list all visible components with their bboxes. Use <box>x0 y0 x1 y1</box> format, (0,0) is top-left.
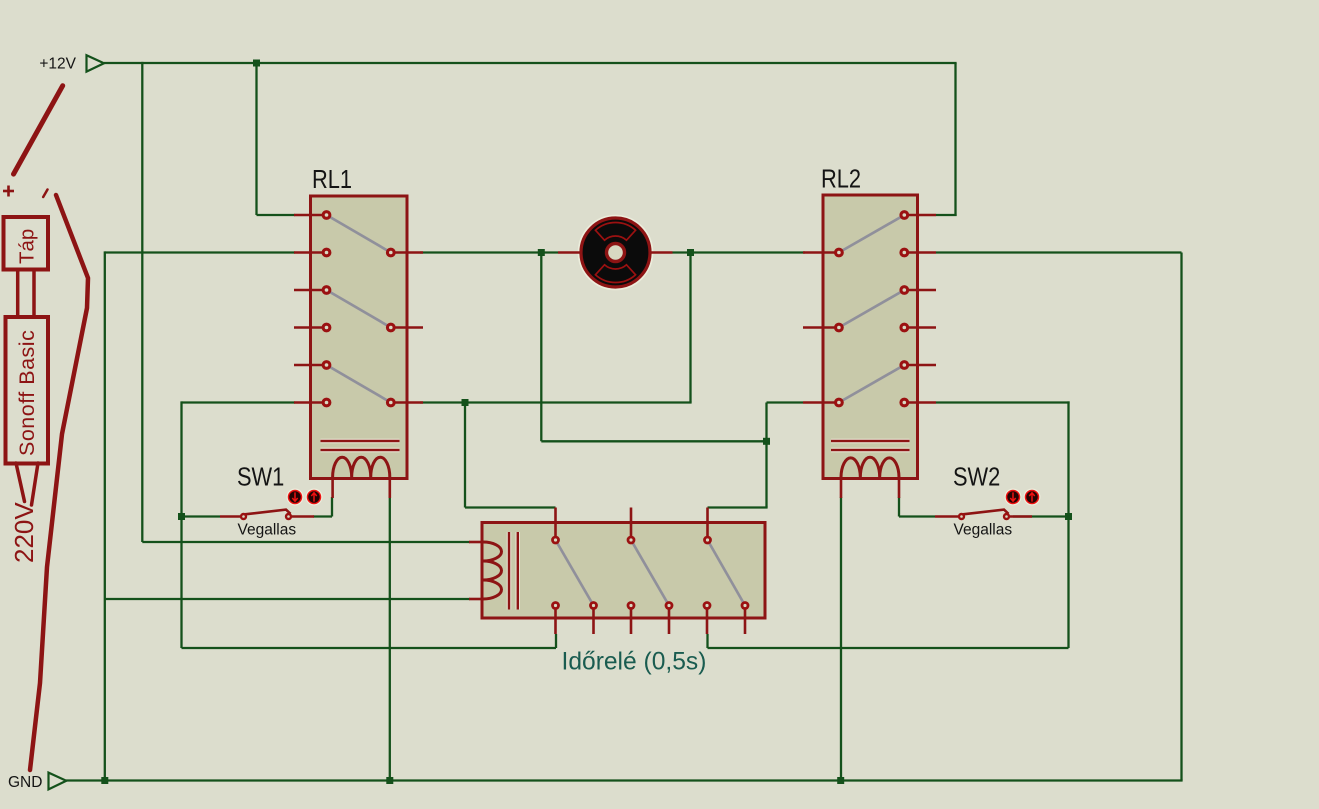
RL2 coil left leg <box>840 477 843 498</box>
RL1 contact blade 2 <box>327 290 391 328</box>
switch SW1 toggle buttons <box>287 489 303 505</box>
RL1 left pin 4 <box>322 323 332 333</box>
wire to SW1 left terminal <box>182 515 221 517</box>
annotation plus sign <box>3 190 14 193</box>
switch SW2 blade <box>963 510 1009 515</box>
wire to timer top pin 3 <box>708 506 768 508</box>
timer top pin 1 <box>551 536 560 545</box>
RL2 left pin 1 <box>834 248 844 258</box>
RL2 left pin 3 stub <box>803 401 839 404</box>
annotation wire negative 220V run <box>30 195 88 770</box>
wire left of RL1 pin6 row <box>182 401 296 403</box>
RL2 coil <box>841 457 899 477</box>
timer contact blade 1 <box>556 540 594 606</box>
svg-text:GND: GND <box>8 774 42 791</box>
junction GND rail mid <box>386 777 393 784</box>
wire SW2 right terminal to loop <box>1013 515 1070 517</box>
RL2 right pin 3 stub <box>904 289 936 292</box>
timer bottom pin 5 <box>703 601 712 610</box>
RL1 left pin 3 stub <box>294 289 327 292</box>
switch SW2 left terminal <box>958 513 965 520</box>
switch SW1 blade <box>245 510 291 515</box>
switch SW2 right terminal <box>1003 513 1010 520</box>
RL2 right pin 3 <box>899 285 909 295</box>
svg-text:220V: 220V <box>9 502 39 563</box>
junction RL1 pin9 row <box>462 399 469 406</box>
wire timer bottom pin 5 to right vertical <box>708 647 1069 649</box>
timer bottom pin 4 stub <box>668 606 671 635</box>
RL2 right pin 1 <box>899 210 909 220</box>
RL1 contact blade 3 <box>327 365 391 403</box>
wire +12V rail <box>104 62 957 64</box>
annotation wire positive <box>14 86 63 174</box>
motor shaft <box>607 244 625 262</box>
timer bottom pin 4 <box>665 601 674 610</box>
timer bottom pin 5 stub <box>706 606 709 635</box>
wire RL2 coil right leg down <box>898 497 900 517</box>
RL1 left pin 5 stub <box>294 364 327 367</box>
motor right terminal stub <box>650 251 673 254</box>
RL1 right pin 1 <box>386 248 396 258</box>
junction mid right <box>763 438 770 445</box>
RL2 left pin 2 stub <box>803 326 839 329</box>
SW2 left stub <box>935 515 958 518</box>
svg-text:Táp: Táp <box>16 229 39 264</box>
SW2 right stub <box>1010 515 1032 518</box>
timer top pin 3 stub <box>706 508 709 541</box>
RL1 right pin 2 <box>386 323 396 333</box>
timer contact blade 3 <box>708 540 746 606</box>
RL1 left pin 1 stub <box>294 214 327 217</box>
RL2 left pin 1 stub <box>803 251 839 254</box>
timer bottom pin 3 stub <box>630 606 633 635</box>
svg-text:RL1: RL1 <box>312 165 352 194</box>
svg-text:SW1: SW1 <box>237 463 284 492</box>
timer top pin 3 <box>703 536 712 545</box>
wire to timer coil upper terminal <box>142 541 470 543</box>
RL2 core lines <box>831 439 910 443</box>
RL1 left pin 4 stub <box>294 326 327 329</box>
junction GND rail left <box>101 777 108 784</box>
wire motor right to RL2 pin2 <box>673 251 806 253</box>
wire Tap to Sonoff leg 2 <box>32 268 36 318</box>
RL2 right pin 1 stub <box>904 214 936 217</box>
svg-text:Vegallas: Vegallas <box>238 522 297 539</box>
wire vertical to RL1 coil left leg <box>331 497 333 517</box>
wire to RL1 pin1 <box>257 214 296 216</box>
timer core lines <box>507 532 511 610</box>
svg-text:Sonoff Basic: Sonoff Basic <box>15 330 39 456</box>
wire to timer bottom pin 1 <box>182 647 557 649</box>
wire Sonoff lead 1 <box>16 463 25 502</box>
timer bottom pin 1 <box>551 601 560 610</box>
RL1 coil <box>333 457 390 477</box>
RL2 right pin 5 stub <box>904 364 936 367</box>
wire RL2 pin9 to SW2 loop <box>936 401 1070 403</box>
motor left terminal stub <box>558 251 582 254</box>
timer top pin 2 stub <box>630 508 633 541</box>
annotation minus sign <box>43 190 47 198</box>
wire vertical from +12V junction to RL1 pin1 <box>255 63 257 215</box>
svg-text:RL2: RL2 <box>821 165 861 194</box>
timer top pin 1 stub <box>554 508 557 541</box>
wire left segment of motor row to RL1 pin2 <box>105 251 295 253</box>
wire RL1 coil right leg to ground rail <box>389 497 391 781</box>
RL2 coil right leg <box>898 477 901 498</box>
wire RL2 pin8 to far-right vertical <box>936 251 1182 253</box>
RL1 contact blade 1 <box>327 215 391 253</box>
RL1 coil right leg <box>388 477 391 498</box>
RL1 left pin 3 <box>322 285 332 295</box>
wire RL2 pin7 to top-right vertical <box>936 214 957 216</box>
timer contact blade 2 <box>631 540 669 606</box>
timer bottom pin 2 stub <box>592 606 595 635</box>
junction GND rail right <box>837 777 844 784</box>
svg-text:+12V: +12V <box>39 56 76 73</box>
motor brush lower <box>595 265 635 283</box>
svg-text:Vegallas: Vegallas <box>954 522 1013 539</box>
RL1 left pin 5 <box>322 360 332 370</box>
wire vertical from motor-right junction <box>689 253 691 403</box>
RL2 right pin 4 <box>899 323 909 333</box>
RL1 right pin 1 stub <box>391 251 423 254</box>
wire RL1 pin9 row to motor-right vertical <box>420 401 692 403</box>
wire vertical to timer pin A <box>464 403 466 508</box>
ground terminal GND <box>8 773 66 791</box>
RL2 contact blade 1 <box>839 215 904 253</box>
wire top-right vertical <box>954 63 956 216</box>
switch SW2 toggle buttons <box>1005 489 1021 505</box>
junction motor right <box>687 249 694 256</box>
RL2 left pin 3 <box>834 398 844 408</box>
relay RL2 body <box>823 195 918 479</box>
RL2 right pin 6 <box>899 398 909 408</box>
wire Sonoff lead 2 <box>32 463 39 505</box>
wire vertical from +12V rail to timer coil row <box>141 62 143 542</box>
timer coil <box>483 542 502 599</box>
wire RL2 coil left leg to ground rail <box>840 497 842 781</box>
svg-text:SW2: SW2 <box>953 463 1000 492</box>
timer bottom pin 6 stub <box>744 606 747 635</box>
wire to timer top pin 1 <box>465 506 556 508</box>
wire to timer coil lower terminal <box>105 598 470 600</box>
timer bottom pin 2 <box>589 601 598 610</box>
wire elbow timer bottom pin 5 <box>706 634 708 648</box>
timer top pin 2 <box>627 536 636 545</box>
RL2 contact blade 3 <box>839 365 904 403</box>
RL2 right pin 2 <box>899 248 909 258</box>
timer coil upper terminal stub <box>469 541 483 544</box>
RL2 contact blade 2 <box>839 290 904 328</box>
timer bottom pin 1 stub <box>554 606 557 635</box>
wire right vertical of SW2 loop <box>1067 401 1069 648</box>
wire Tap to Sonoff leg 1 <box>16 268 20 318</box>
wire horizontal to mid junction <box>541 440 766 442</box>
wire vertical mid right <box>765 403 767 508</box>
RL1 right pin 2 stub <box>391 326 423 329</box>
timer bottom pin 6 <box>741 601 750 610</box>
wire SW1 right terminal to RL1 coil <box>313 515 332 517</box>
wire RL1 pin4 to motor left <box>420 251 558 253</box>
SW1 left stub <box>220 515 240 518</box>
wire GND rail <box>66 779 1183 781</box>
RL1 left pin 2 <box>322 248 332 258</box>
box Tap <box>4 217 49 270</box>
RL2 right pin 5 <box>899 360 909 370</box>
timer bottom pin 3 <box>627 601 636 610</box>
RL2 left pin 2 <box>834 323 844 333</box>
switch SW1 left terminal <box>240 513 247 520</box>
RL1 coil left leg <box>331 477 334 498</box>
RL2 right pin 4 stub <box>904 326 936 329</box>
wire elbow timer bottom pin 1 <box>555 634 557 648</box>
wire far-right vertical <box>1180 253 1182 781</box>
motor brush upper <box>595 222 635 240</box>
wire to SW2 left terminal <box>899 515 935 517</box>
motor body <box>579 216 653 290</box>
relay RL1 body <box>311 196 408 479</box>
timer coil lower terminal stub <box>469 598 483 601</box>
RL1 left pin 1 <box>322 210 332 220</box>
junction motor left <box>538 249 545 256</box>
box Sonoff Basic <box>6 317 49 464</box>
RL1 left pin 2 stub <box>294 251 327 254</box>
RL1 right pin 3 stub <box>391 401 423 404</box>
wire long left vertical <box>104 251 106 780</box>
SW1 right stub <box>292 515 314 518</box>
power terminal +12V <box>39 55 104 72</box>
junction SW2 right <box>1065 513 1072 520</box>
junction SW1 left <box>178 513 185 520</box>
timer relay body <box>482 523 765 619</box>
RL1 core lines <box>321 439 400 443</box>
RL2 right pin 6 stub <box>904 401 936 404</box>
RL2 right pin 2 stub <box>904 251 936 254</box>
RL1 left pin 6 <box>322 398 332 408</box>
RL1 right pin 3 <box>386 398 396 408</box>
switch SW1 right terminal <box>285 513 292 520</box>
svg-text:Időrelé (0,5s): Időrelé (0,5s) <box>562 649 707 676</box>
wire vertical from motor-left junction <box>540 253 542 442</box>
RL1 left pin 6 stub <box>294 401 327 404</box>
wire vertical left of SW1 <box>180 401 182 648</box>
junction +12V rail <box>253 60 260 67</box>
wire to RL2 pin6 <box>767 401 804 403</box>
